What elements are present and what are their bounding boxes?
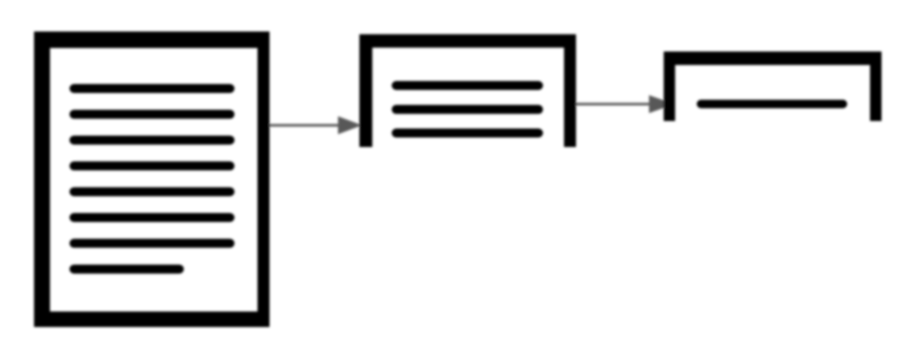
arrow 2 shaft <box>569 103 651 106</box>
document text line 3 <box>74 136 230 145</box>
middle clipped box frame <box>359 34 576 147</box>
document text line 2 <box>74 110 230 119</box>
document frame (left) <box>34 32 270 328</box>
arrow 1 shaft <box>266 124 340 127</box>
document text line 7 <box>74 239 230 248</box>
arrow 2 head <box>649 95 674 113</box>
middle box text line 2 <box>396 105 538 114</box>
middle box text line 1 <box>396 81 538 90</box>
document text line 8 (short) <box>74 265 179 274</box>
middle box text line 3 <box>396 129 538 138</box>
document text line 4 <box>74 161 230 170</box>
document text line 1 <box>74 84 230 93</box>
document text line 5 <box>74 187 230 196</box>
right clipped box frame <box>664 52 882 122</box>
document text line 6 <box>74 213 230 222</box>
right box text line <box>701 100 843 109</box>
arrow 1 head <box>338 116 362 134</box>
